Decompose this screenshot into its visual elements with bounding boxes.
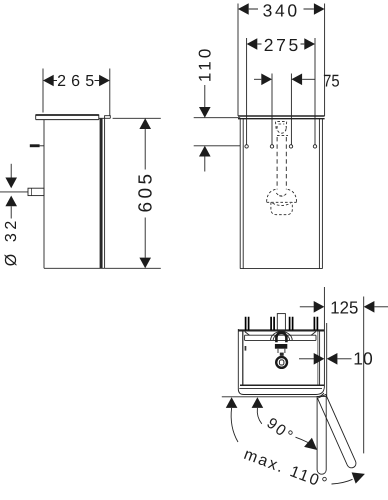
dimension 75 extension line left xyxy=(271,74,273,145)
door open 110 degrees xyxy=(317,395,357,470)
dimension 340 extension line right xyxy=(324,4,326,116)
side view door front panel xyxy=(104,118,106,268)
dimension 10 tail right xyxy=(337,358,351,360)
dimension 275 extension line right xyxy=(314,38,316,145)
svg-text:265: 265 xyxy=(57,73,94,90)
drain ring xyxy=(276,357,287,368)
faucet connector xyxy=(278,349,285,356)
dimension 75 extension line right xyxy=(290,74,292,145)
dimension 75 tail right xyxy=(302,78,315,80)
side view carcass bottom xyxy=(44,267,105,269)
arc 110 tail xyxy=(231,408,238,442)
svg-text:75: 75 xyxy=(323,71,340,90)
svg-text:605: 605 xyxy=(136,174,157,213)
arc 90 tail xyxy=(257,408,262,424)
top view left panel inner line xyxy=(242,331,244,385)
svg-text:340: 340 xyxy=(263,0,298,20)
dimension 265 arrow left xyxy=(43,75,54,87)
top view drain stub xyxy=(277,314,285,331)
front view left side panel xyxy=(240,119,243,269)
side view drain pipe stub xyxy=(28,188,44,195)
hidden drain fitting (dashed) xyxy=(276,122,289,136)
dimension 10 arrow right xyxy=(327,353,338,365)
dimension 125 arrow right xyxy=(364,301,375,313)
faucet black band xyxy=(275,344,287,349)
top view mounting rail xyxy=(245,332,316,341)
dimension 125 tail left xyxy=(300,306,314,308)
dimension 340 line xyxy=(249,8,314,10)
dimension 125 extension line left xyxy=(323,287,325,329)
dimension 275 arrow right xyxy=(304,38,315,50)
arc 110 arrow at closed position xyxy=(226,397,238,408)
dimension 265 extension line right xyxy=(109,69,111,116)
dimension 275 arrow left xyxy=(247,38,258,50)
dimension 340 arrow right xyxy=(314,3,325,15)
dimension 340 extension line left xyxy=(237,4,239,116)
arc 110 end segment xyxy=(332,479,353,484)
side view drain line to wall xyxy=(0,191,28,193)
arc 90 arrow at closed position xyxy=(252,397,264,408)
svg-text:125: 125 xyxy=(330,298,358,318)
front view right side panel xyxy=(319,119,322,269)
dimension 110 line lower xyxy=(204,157,206,172)
dimension 110 arrow upper xyxy=(199,107,211,118)
dimension Ø32 arrow lower xyxy=(5,196,17,207)
dimension Ø32 arrow upper xyxy=(5,178,17,189)
dimension 605 arrow top xyxy=(139,118,151,129)
svg-text:275: 275 xyxy=(264,35,299,55)
mounting hole 3 xyxy=(289,145,292,148)
top view outer outline xyxy=(238,329,324,395)
dimension 605 arrow bottom xyxy=(139,258,151,269)
side view top plate xyxy=(36,115,99,120)
svg-text:110: 110 xyxy=(196,49,215,83)
dimension 605 line xyxy=(144,129,146,258)
top view carcass front line xyxy=(240,384,324,386)
arc 110 end arrowhead xyxy=(352,472,365,483)
dimension 10 handle line xyxy=(326,323,328,397)
dimension Ø32 line upper xyxy=(10,164,12,178)
side view handle bottom line xyxy=(99,117,111,119)
dimension 110 extension line upper xyxy=(194,117,241,119)
arc 90 end segment xyxy=(296,437,309,442)
dimension 265 arrow right xyxy=(99,75,110,87)
top view right panel inner line xyxy=(319,331,321,385)
dimension 125 arrow left xyxy=(314,301,325,313)
dimension 75 tail left xyxy=(254,78,261,80)
top view wall edge xyxy=(238,329,324,331)
top view door inner line xyxy=(239,388,322,390)
dimension 75 arrow left xyxy=(261,74,272,86)
dimension 110 extension line lower xyxy=(194,145,241,147)
dimension 75 arrow right xyxy=(291,74,302,86)
mounting stud pair 2 xyxy=(271,317,274,330)
dimension 265 extension line left xyxy=(42,69,44,113)
arc 90 end arrowhead xyxy=(304,438,317,450)
mounting hole 2 xyxy=(270,145,273,148)
front view top plate xyxy=(238,116,325,119)
mounting hole 4 xyxy=(313,145,316,148)
svg-text:10: 10 xyxy=(353,349,373,369)
dimension 605 extension line top xyxy=(113,117,161,119)
dimension 10 arrow left xyxy=(314,353,325,365)
side view handle rail xyxy=(105,116,111,119)
side view carcass back edge xyxy=(43,120,45,269)
dimension 605 extension line bottom xyxy=(105,267,161,269)
dimension 125 tail right xyxy=(374,306,388,308)
hidden drain pipe (dashed) xyxy=(277,137,286,189)
top view handle front line xyxy=(222,393,324,397)
dimension 10 leader xyxy=(299,358,314,360)
mounting hole 1 xyxy=(245,145,248,148)
dimension 265 line xyxy=(54,80,100,82)
hinge tick left panel xyxy=(245,346,247,351)
dimension 275 extension line left xyxy=(246,38,248,145)
side view door dark band xyxy=(100,119,103,269)
hidden bottle trap (dashed) xyxy=(267,189,297,214)
dimension Ø32 line lower xyxy=(10,206,12,218)
faucet clamp xyxy=(276,333,286,343)
dimension 275 line xyxy=(257,43,304,45)
dimension 110 arrow lower xyxy=(199,146,211,157)
mounting stud pair 3 xyxy=(290,317,293,330)
dimension 110 line upper xyxy=(204,85,206,107)
dimension 125 extension line right xyxy=(363,297,365,454)
dimension 340 arrow left xyxy=(238,3,249,15)
door open 90 degrees xyxy=(317,396,326,474)
mounting stud pair 1 xyxy=(246,317,249,330)
mounting stud pair 4 xyxy=(314,317,317,330)
faucet escutcheon arcs xyxy=(271,332,293,341)
front view bottom xyxy=(240,268,322,270)
side view wall bracket xyxy=(30,144,40,147)
